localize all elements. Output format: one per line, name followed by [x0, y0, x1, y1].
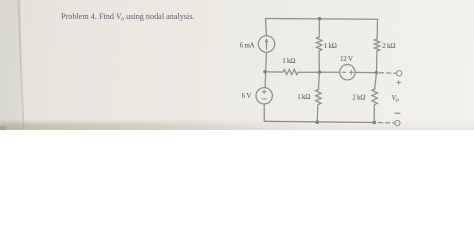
svg-text:Vo: Vo [392, 94, 400, 104]
svg-text:1 kΩ: 1 kΩ [297, 93, 310, 101]
svg-text:6 mA: 6 mA [240, 41, 256, 49]
svg-text:2 kΩ: 2 kΩ [382, 42, 395, 50]
svg-text:6 V: 6 V [242, 92, 253, 100]
svg-text:2 kΩ: 2 kΩ [352, 94, 365, 102]
svg-text:1 kΩ: 1 kΩ [282, 57, 295, 65]
svg-text:1 kΩ: 1 kΩ [324, 42, 337, 50]
svg-text:12 V: 12 V [340, 55, 354, 63]
